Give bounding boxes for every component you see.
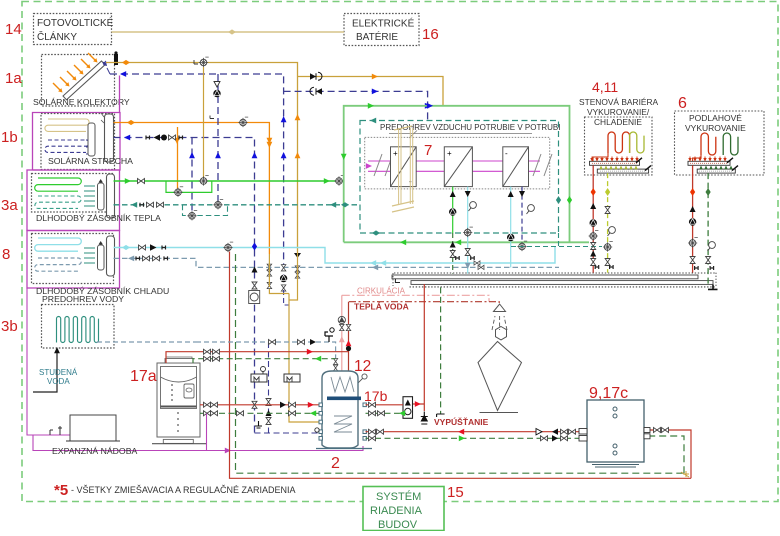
wire drain green dashed from slab [440, 287, 442, 414]
heat exchanger unit U1 [391, 147, 417, 187]
box ELEKTRICKE BATERIE [344, 14, 419, 46]
magenta riser and bus [27, 288, 363, 451]
magenta enclosure heat storage [27, 170, 120, 231]
svg-text:1a: 1a [5, 70, 22, 87]
dotted duct box [365, 137, 550, 189]
heat exchanger unit U2 [444, 147, 472, 187]
heat pump 17a body [157, 357, 200, 443]
duct air lines (magenta) [368, 161, 540, 171]
teal box outlet to wall riser [511, 233, 602, 247]
faucet symbol [325, 332, 333, 342]
magenta stub at heat pump [206, 414, 208, 451]
wire heat storage return (teal dashed) [114, 204, 359, 206]
svg-text:RIADENIA: RIADENIA [370, 505, 423, 517]
wire bottom return bus (dark green dashed) [366, 437, 581, 439]
svg-text:8: 8 [2, 246, 10, 263]
svg-text:EXPANZNÁ NÁDOBA: EXPANZNÁ NÁDOBA [52, 446, 137, 456]
solenoid M2 [284, 374, 300, 382]
wire bottom supply bus (dark red) [366, 431, 581, 433]
valves on roof return [146, 136, 150, 140]
wire navy vertical 254.5 from collector return branch [252, 152, 258, 158]
solar roof absorber coil (blue dashed) [45, 140, 89, 152]
teal dashed box air preheat [360, 121, 559, 234]
box SOLARNA STRECHA [41, 114, 115, 170]
wire heatpump return riser (dark green dashed) [236, 254, 685, 473]
box SYSTEM RIADENIA BUDOV [363, 487, 444, 531]
wire hot water riser (red) [348, 302, 350, 373]
wire CIRKULACIA (pink dash-dot) [342, 295, 489, 301]
svg-text:ČLÁNKY: ČLÁNKY [37, 30, 77, 43]
svg-text:1b: 1b [1, 129, 18, 146]
wire circulation riser (pink) [341, 295, 343, 373]
wire khaki branch to battery riser [298, 77, 444, 106]
svg-text:STENOVÁ BARIÉRA: STENOVÁ BARIÉRA [579, 97, 659, 107]
svg-text:CIRKULÁCIA: CIRKULÁCIA [357, 287, 406, 296]
ground loop twin pipes (tan) [399, 128, 413, 204]
svg-text:TEPLÁ VODA: TEPLÁ VODA [354, 302, 409, 312]
svg-text:ELEKTRICKÉ: ELEKTRICKÉ [352, 17, 415, 30]
svg-text:SOLÁRNA STRECHA: SOLÁRNA STRECHA [48, 156, 133, 166]
wire solar roof supply (orange) [114, 123, 270, 255]
wire drain red from slab [412, 284, 424, 411]
svg-text:16: 16 [422, 26, 439, 43]
solenoid M1 [251, 374, 267, 382]
wire green mixing loop [166, 181, 212, 192]
wire red bus riser right [650, 430, 691, 478]
heat exchanger cylinders 3a [98, 183, 105, 210]
tank 9,17c right ports [644, 428, 650, 439]
svg-text:4,11: 4,11 [592, 79, 618, 95]
svg-text:3b: 3b [1, 318, 18, 335]
expansion vessel EXPANZNA NADOBA [70, 415, 116, 441]
valve on collector supply [199, 57, 209, 67]
khaki sun glyph [681, 471, 689, 477]
expansion vessel fittings [50, 426, 62, 435]
svg-text:VYKUROVANIE/: VYKUROVANIE/ [587, 107, 650, 117]
slab end drain [708, 285, 718, 290]
solar irradiance arrows [53, 53, 98, 93]
floor manifold return bar [697, 169, 735, 173]
wall manifold return bar [597, 169, 648, 173]
wire navy arrow on riser 283.6 [281, 152, 287, 158]
wall manifold supply bar [590, 161, 640, 165]
wire navy drop at 217 [217, 74, 219, 202]
valve on roof supply [238, 117, 248, 127]
svg-text:- VŠETKY ZMIEŠAVACIA A REGULAČ: - VŠETKY ZMIEŠAVACIA A REGULAČNÉ ZARIADE… [71, 485, 296, 495]
mixing valve on green line [334, 176, 344, 186]
cold storage coil cyan [35, 238, 82, 251]
wire preheat outlet (slate dashed) [97, 342, 196, 343]
box DLHODOBY ZASOBNIK TEPLA [32, 174, 114, 213]
wire heat pump source return (dark green dashed) [193, 359, 336, 363]
svg-text:6: 6 [678, 95, 687, 112]
svg-text:+: + [393, 149, 398, 158]
wire heat pump source supply (dark red) [166, 352, 349, 363]
svg-text:SOLÁRNE KOLEKTORY: SOLÁRNE KOLEKTORY [33, 97, 130, 107]
green frame air preheat zone [344, 106, 589, 243]
valve stack khaki 297.5 [295, 266, 300, 272]
check valve on navy branch [316, 88, 322, 94]
svg-text:*5: *5 [54, 482, 68, 499]
svg-text:+: + [447, 149, 452, 158]
preheat coil [57, 317, 99, 343]
svg-text:7: 7 [424, 142, 432, 159]
box SOLARNE KOLEKTORY [42, 55, 115, 107]
exchanger connectors 8 [84, 248, 95, 263]
U2 risers [452, 187, 454, 233]
wire orange arrow on khaki riser 297.5 [295, 152, 301, 158]
blue diamonds at crossings [252, 243, 257, 251]
wire roof supply drop to mixing loop (orange) [177, 127, 179, 189]
wire cold storage return (slate dashed) [114, 258, 560, 267]
floor manifold supply bar [688, 161, 730, 165]
node collector outlet [103, 61, 106, 64]
wall heating coil red [608, 132, 630, 153]
svg-text:15: 15 [447, 484, 464, 501]
wire PV to battery (tan) [112, 31, 345, 33]
box DLHODOBY ZASOBNIK CHLADU [32, 234, 114, 284]
tank 9,17c left ports [579, 429, 587, 442]
svg-text:BUDOV: BUDOV [378, 519, 418, 531]
buffer tank body [322, 371, 358, 448]
solar collector panel [63, 61, 105, 100]
wall risers [592, 165, 594, 272]
wire navy branch to air box (navy dashed) [284, 91, 428, 120]
heat exchanger cylinders 8 [98, 245, 105, 270]
floor heating coil red [701, 133, 716, 155]
tank ports [319, 403, 366, 440]
svg-text:17a: 17a [130, 368, 157, 385]
wire heatpump supply riser (dark red) [230, 252, 692, 479]
wire navy drop at 192 [191, 138, 193, 214]
box FOTOVOLTICKE CLANKY [34, 14, 112, 45]
heat storage coil solid green [35, 178, 82, 191]
check valve on khaki branch [310, 73, 316, 79]
heat exchanger unit U3 [503, 147, 529, 187]
roof coil connectors [86, 126, 96, 154]
floor heating coil dark green part [723, 133, 738, 155]
cold feed branch to tank bottom (navy dashed) [268, 342, 270, 433]
wire collector supply (khaki) top [106, 63, 298, 254]
svg-text:DLHODOBÝ ZÁSOBNÍK TEPLA: DLHODOBÝ ZÁSOBNÍK TEPLA [36, 213, 161, 223]
cold storage coil dashed slate [35, 258, 82, 271]
wire cold storage supply (cyan) [114, 247, 556, 263]
wire heat storage supply (green) [114, 180, 344, 182]
svg-text:VODA: VODA [47, 377, 70, 386]
solar roof absorber coil (tan) [45, 119, 89, 131]
wire green dashed bus riser right [650, 436, 684, 473]
svg-text:12: 12 [354, 358, 371, 375]
cold water inlet [33, 350, 57, 392]
svg-text:PREDOHREV VODY: PREDOHREV VODY [42, 294, 124, 304]
node collector supply arrow [295, 114, 301, 120]
tank DHW coil top [331, 377, 354, 392]
floor risers [692, 165, 694, 272]
valve stack orange 269.4 [267, 264, 272, 270]
svg-text:3a: 3a [1, 197, 18, 214]
wire teal return loop [183, 205, 228, 216]
exchanger connectors 3a [84, 186, 95, 206]
svg-text:BATÉRIE: BATÉRIE [356, 30, 398, 43]
person figure [478, 327, 522, 413]
cold water faucet to tank top [196, 342, 336, 374]
svg-text:CHLADENIE: CHLADENIE [594, 117, 642, 127]
valve stack navy 254.5 [252, 267, 258, 273]
box floor heating [675, 111, 765, 175]
mixing valve cyan / heatpump source [223, 242, 233, 252]
svg-text:FOTOVOLTICKÉ: FOTOVOLTICKÉ [37, 16, 114, 29]
svg-text:-: - [505, 149, 508, 158]
wire orange arrow on riser 269 [267, 138, 273, 144]
thermometer on tank dome [362, 374, 367, 379]
wire TEPLA VODA (dark red) [349, 302, 499, 305]
svg-text:2: 2 [331, 455, 340, 472]
valve stack navy 283.6 [281, 265, 286, 271]
collector sensor [114, 54, 118, 65]
svg-text:VYKUROVANIE: VYKUROVANIE [685, 123, 746, 133]
wire heat pump to tank supply (dark red) [200, 404, 322, 406]
wire solar roof return (navy dashed) [114, 138, 255, 434]
ceiling slab hatched bars [392, 273, 716, 288]
tank 9,17c body [587, 400, 644, 462]
svg-text:STUDENÁ: STUDENÁ [39, 368, 78, 377]
fittings above slab left [456, 256, 460, 260]
wire heat pump to tank return (dark green dashed) [200, 412, 322, 414]
svg-text:PODLAHOVÉ: PODLAHOVÉ [689, 113, 742, 123]
heat storage coil dashed green [35, 196, 81, 208]
box wall heating [585, 117, 653, 175]
svg-text:14: 14 [5, 21, 22, 38]
tank lower coil [334, 416, 352, 432]
wall heating coil olive part [630, 132, 644, 153]
magenta enclosure solar roof [33, 76, 121, 171]
svg-text:SYSTÉM: SYSTÉM [376, 490, 421, 503]
wire tank right drain line (dark green dashed) [366, 412, 404, 414]
wire tank bottom navy dashed [255, 432, 319, 434]
wire solar gold riser to tank [269, 253, 322, 422]
magenta enclosure cold storage [27, 231, 120, 289]
wire khaki drop to mixing loop [203, 67, 205, 178]
heat exchanger cylinders 1b [88, 123, 95, 156]
wire tank right to pump block (dark red) [366, 404, 404, 406]
wire collector return (navy dashed) [110, 74, 284, 290]
pump block at tank [403, 397, 413, 419]
valves teal loop [187, 210, 197, 220]
tank stratifier bar [327, 397, 361, 401]
shower head [494, 304, 506, 312]
U3 risers [510, 187, 512, 268]
svg-text:VYPÚŠŤANIE: VYPÚŠŤANIE [434, 416, 489, 427]
mixing valve green loop [173, 187, 183, 197]
